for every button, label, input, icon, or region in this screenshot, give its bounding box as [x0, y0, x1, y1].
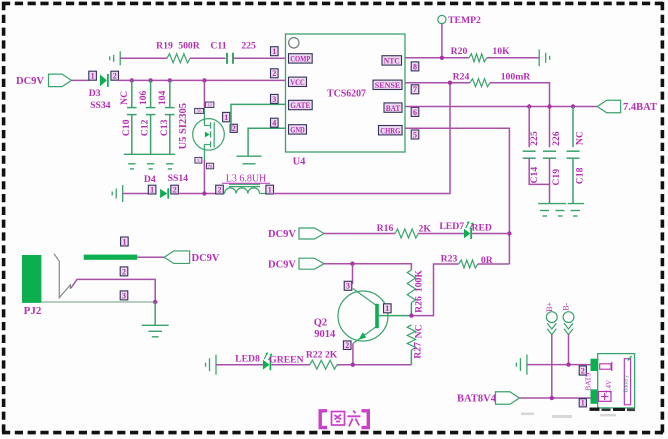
wire BAT8V4 to battery pin1 [519, 397, 590, 399]
pin label box S2 (U5) [195, 108, 204, 113]
transistor Q2 9014 [338, 289, 388, 344]
orientation circle U4 [289, 38, 299, 48]
connector DC9V (Q2) [299, 258, 324, 269]
wire Q2 base to junction [379, 315, 412, 317]
svg-text:VCC: VCC [290, 77, 305, 87]
svg-text:3: 3 [122, 291, 126, 300]
svg-text:R20: R20 [451, 46, 468, 57]
pin 1 of PJ2 [121, 237, 129, 246]
ground (C18) [568, 204, 584, 216]
wire R26 to base junction [410, 303, 412, 316]
wire CHRG down to LED7/R23 [405, 128, 509, 264]
pin 2 of L3 [216, 185, 224, 194]
svg-text:CHRG: CHRG [380, 125, 400, 135]
LED LED8 (green) [263, 359, 271, 370]
svg-text:2: 2 [345, 341, 349, 350]
pin 2 of D3 [111, 71, 119, 80]
svg-text:2K: 2K [419, 223, 432, 234]
junction BAT-C18 [571, 104, 575, 108]
svg-text:NC: NC [119, 91, 130, 105]
resistor R20 [469, 54, 487, 62]
svg-text:R23: R23 [441, 253, 458, 264]
svg-text:1: 1 [385, 304, 389, 313]
connector 7.4BAT [597, 100, 620, 113]
resistor R23 [459, 260, 478, 268]
wire rail to C13 [169, 80, 171, 107]
junction PJ2 pin2-pin3 [153, 300, 157, 304]
capacitor C13 [165, 108, 175, 115]
svg-text:226: 226 [551, 131, 562, 146]
svg-text:225: 225 [241, 41, 256, 52]
resistor R22 [310, 360, 337, 369]
wire R22 to R27 [337, 364, 411, 366]
ground (PJ2) [142, 325, 169, 337]
svg-text:78: 78 [208, 164, 213, 169]
wire B+ down to BAT8V4 net [551, 335, 553, 398]
capacitor C14 [523, 151, 536, 158]
B+ crowfoot [547, 323, 556, 334]
wire ground to battery pin2 [527, 364, 591, 366]
svg-text:B+: B+ [545, 301, 554, 311]
ground (U4 GND pin) [237, 156, 262, 164]
pin 2 of Q2 [343, 341, 351, 350]
capacitor C11 [227, 53, 233, 64]
svg-text:104: 104 [157, 90, 168, 105]
pin 2 of D4 [171, 185, 179, 194]
wire C12 to ground bus [150, 115, 152, 155]
wire B- down to ground net [568, 335, 570, 365]
wire C14 bottom [529, 158, 549, 184]
svg-text:C11: C11 [210, 41, 226, 52]
junction emitter rail [351, 363, 355, 367]
op-amp U4 TCS6207 body [286, 34, 406, 152]
wire BAT to C18 [572, 107, 574, 148]
svg-text:C14: C14 [529, 167, 540, 184]
svg-text:C19: C19 [551, 169, 562, 186]
junction rail-C10 [130, 78, 134, 82]
pin 2 of U5 [230, 124, 237, 133]
pin name COMP [289, 54, 313, 64]
svg-text:R19: R19 [156, 41, 173, 52]
wire LED7 to CHRG net [472, 233, 510, 235]
junction BAT-C14 [527, 104, 531, 108]
svg-text:1: 1 [268, 186, 272, 195]
wire DC9V to R26 [324, 264, 411, 270]
wire R19 to C11 [190, 57, 226, 59]
wire PJ2 pin2 [71, 279, 155, 302]
connector DC9V input [49, 74, 72, 87]
pin label box D (U5) [195, 157, 202, 163]
battery green tick [628, 356, 632, 361]
ground bus under C10 C12 C13 [124, 154, 175, 169]
svg-text:SS34: SS34 [90, 100, 111, 111]
svg-text:TEMP2: TEMP2 [448, 15, 481, 26]
pin 1 of U4 [271, 47, 279, 56]
wire SENSE to R24 [405, 82, 470, 84]
junction CHRG-LED7 [507, 231, 511, 235]
wire rail to U5 source [203, 80, 205, 108]
svg-text:1: 1 [91, 72, 95, 81]
pin 1 of Q2 [384, 304, 392, 313]
svg-text:DC9V: DC9V [268, 259, 296, 270]
svg-text:2: 2 [113, 72, 117, 81]
svg-text:COMP: COMP [290, 54, 310, 64]
capacitor C12 [146, 108, 156, 115]
wire NTC to R20 [405, 57, 469, 59]
pin 1 of U5 [223, 112, 230, 122]
svg-text:2: 2 [173, 186, 177, 195]
svg-text:8: 8 [413, 62, 417, 71]
ground (R20) [539, 49, 550, 66]
pin 1 of L3 [266, 185, 274, 194]
inductor L3 6.8UH [223, 184, 266, 193]
svg-text:56: 56 [197, 109, 202, 114]
wire BAT to C14 [528, 107, 530, 148]
wire R24 to C19 top [490, 83, 550, 148]
svg-text:GND: GND [290, 125, 305, 135]
pin label box S (U5) [205, 102, 214, 108]
svg-text:C18: C18 [575, 167, 586, 184]
wire C11 to U4 pin1 COMP [234, 57, 286, 59]
svg-text:10K: 10K [492, 46, 510, 57]
svg-text:R24: R24 [453, 72, 470, 83]
ground (battery minus) [516, 355, 527, 375]
connector DC9V (PJ2) [164, 251, 189, 264]
svg-text:C13: C13 [159, 119, 170, 136]
pin 1 of BAT9 [579, 399, 586, 408]
svg-text:U5 SI2305: U5 SI2305 [178, 103, 189, 149]
pin 5 of U4 [411, 130, 419, 139]
wire R20 to ground [487, 57, 539, 59]
resistor R27 NC [407, 325, 415, 350]
watermark smudge under battery [590, 408, 636, 412]
pin 6 of U4 [411, 107, 419, 116]
svg-text:DC9V: DC9V [268, 229, 296, 240]
wire L3 to R24/SENSE [273, 83, 450, 194]
junction rail-U5 source [202, 78, 206, 82]
junction SENSE-L3 [448, 81, 452, 85]
pin name GATE [289, 100, 313, 110]
wire Q2 emitter down [352, 344, 354, 365]
wire DC9V to R16 [324, 233, 395, 235]
svg-text:1: 1 [224, 113, 228, 122]
B- crowfoot [564, 323, 573, 334]
svg-text:100K: 100K [414, 270, 425, 293]
wire R23 right leg [478, 263, 510, 265]
svg-text:LED7: LED7 [439, 221, 464, 232]
battery fuse symbol [600, 362, 612, 371]
svg-text:D4: D4 [144, 174, 156, 185]
capacitor C10 [127, 108, 137, 115]
battery pin 2 pad [591, 359, 598, 371]
svg-text:100mR: 100mR [501, 72, 532, 83]
svg-text:2: 2 [218, 186, 222, 195]
pin 3 of PJ2 [120, 291, 128, 300]
svg-text:R27: R27 [413, 342, 424, 359]
ground (D4 anode) [112, 185, 123, 202]
LED8 emission arrows [264, 353, 272, 361]
pin name BAT [384, 103, 402, 113]
svg-text:R26: R26 [414, 296, 425, 313]
pin 2 of BAT9 [579, 366, 586, 376]
svg-text:PJ2: PJ2 [24, 305, 42, 317]
svg-text:3: 3 [346, 282, 350, 291]
resistor R24 [470, 79, 490, 87]
capacitor C18 [567, 151, 580, 158]
ground (C14 C19) [538, 204, 566, 216]
junction rail-C12 [148, 78, 152, 82]
svg-text:SENSE: SENSE [375, 80, 401, 90]
wire down to Q2 collector [352, 264, 354, 284]
wire C19 to ground [549, 158, 551, 203]
PJ2 sleeve line (pin 3) [41, 301, 155, 303]
wire ground to R19 [120, 57, 167, 59]
svg-text:2: 2 [122, 267, 126, 276]
wire D4 to L3 [178, 193, 216, 195]
pin 8 of U4 [411, 62, 419, 71]
svg-text:Battery: Battery [624, 375, 630, 393]
pin 3 of U4 [271, 94, 279, 103]
svg-text:SS14: SS14 [168, 173, 189, 184]
wire PJ2 to ground [154, 302, 156, 325]
wire R16 to LED7 [418, 233, 464, 235]
connector DC9V (LED7) [299, 228, 324, 239]
svg-text:5: 5 [413, 130, 417, 139]
svg-text:TCS6207: TCS6207 [327, 89, 366, 100]
wire rail to C12 [150, 80, 152, 107]
node B- [563, 312, 574, 323]
node TEMP2 [438, 15, 446, 23]
caption 【图六】 [320, 411, 368, 428]
svg-text:D3: D3 [89, 88, 101, 99]
wire TEMP2 stem [441, 24, 443, 58]
resistor R19 [167, 54, 190, 63]
pin name NTC [382, 56, 402, 66]
wire C13 to ground bus [169, 115, 171, 155]
svg-text:12: 12 [207, 103, 212, 108]
battery label box [624, 359, 630, 405]
junction D4-L3-U5 drain [202, 191, 206, 195]
transistor U5 SI2305 (P-MOSFET) [193, 108, 225, 160]
pin 7 of U4 [411, 85, 419, 94]
LED LED7 (red) [464, 228, 471, 239]
pin 1 of D3 [89, 71, 97, 80]
capacitor C19 [543, 151, 556, 158]
svg-text:500R: 500R [178, 41, 201, 52]
svg-text:BAT: BAT [386, 103, 401, 113]
wire LED8 to R22 [272, 364, 310, 366]
connector PJ2 body [22, 255, 41, 303]
wire U5 gate to U4 GATE [231, 104, 286, 131]
svg-text:7.4BAT: 7.4BAT [623, 102, 657, 113]
watermark faint specks [521, 413, 616, 419]
junction B- on ground wire [566, 362, 570, 366]
pin name GND [289, 125, 307, 135]
resistor R16 [395, 229, 418, 238]
connector BAT8V4 [496, 392, 520, 405]
svg-text:LED8: LED8 [235, 354, 260, 365]
svg-text:C10: C10 [121, 119, 132, 136]
svg-text:Q2: Q2 [314, 317, 327, 328]
ground (COMP RC branch) [110, 51, 121, 65]
PJ2 switch contact [54, 254, 70, 298]
svg-text:U4: U4 [293, 157, 307, 168]
diode D3 SS34 [100, 74, 108, 87]
LED7 emission arrows [466, 222, 474, 230]
pin name VCC [289, 77, 307, 87]
svg-text:DC9V: DC9V [16, 76, 44, 87]
ground (LED8) [206, 355, 217, 375]
svg-text:NC: NC [414, 324, 425, 338]
svg-text:DC9V: DC9V [192, 253, 220, 264]
wire BAT to 7.4BAT [405, 106, 597, 108]
svg-text:GREEN: GREEN [269, 355, 303, 366]
battery plus symbol [599, 392, 612, 402]
pin label box D2 (U5) [207, 163, 214, 169]
junction B+ on BAT8V4 wire [550, 396, 554, 400]
wire R27 to emitter rail [410, 350, 412, 365]
wire ground to D4 [123, 193, 149, 195]
wire C10 to ground bus [131, 115, 133, 155]
pin 4 of U4 [271, 118, 279, 127]
svg-text:GATE: GATE [290, 100, 310, 110]
battery BAT9 body [598, 354, 635, 408]
pin 3 of Q2 [344, 281, 352, 290]
svg-text:BAT9: BAT9 [584, 373, 593, 391]
svg-text:C12: C12 [140, 119, 151, 136]
svg-text:106: 106 [138, 90, 149, 105]
diode D4 SS14 [160, 188, 168, 198]
wire C18 to ground [572, 158, 574, 203]
pin 2 of PJ2 [120, 267, 128, 276]
wire PJ2 pin1 to DC9V [137, 256, 164, 258]
svg-text:225: 225 [529, 131, 540, 146]
svg-text:RED: RED [471, 222, 491, 233]
svg-text:9014: 9014 [314, 329, 336, 340]
wire rail to C10 [131, 80, 133, 107]
svg-text:1: 1 [150, 186, 154, 195]
svg-text:1: 1 [272, 47, 276, 56]
svg-text:4: 4 [272, 119, 276, 128]
wire VCC rail [118, 79, 286, 81]
junction rail-C13 [168, 78, 172, 82]
wire U5 drain down [203, 160, 205, 194]
svg-text:3: 3 [272, 95, 276, 104]
wire ground to LED8 [216, 364, 263, 366]
svg-text:B-: B- [562, 302, 571, 310]
pin 2 of U4 [271, 69, 279, 78]
svg-text:BAT8V4: BAT8V4 [457, 394, 497, 405]
svg-text:NC: NC [575, 131, 586, 145]
pin 1 of D4 [148, 185, 156, 194]
junction DC9V-Q2 collector [350, 262, 354, 266]
svg-text:6: 6 [413, 108, 417, 117]
PJ2 tip contact (pin 1) [84, 255, 138, 260]
svg-text:7: 7 [413, 85, 417, 94]
svg-text:1: 1 [581, 399, 585, 408]
wire R23 left leg [411, 264, 458, 316]
svg-text:2: 2 [232, 124, 236, 133]
wire U4 GND pin [248, 128, 285, 156]
pin name CHRG [379, 125, 403, 135]
svg-text:1: 1 [122, 237, 126, 246]
junction BAT-R24/C19 [547, 104, 551, 108]
pin name SENSE [373, 80, 402, 90]
junction NTC-TEMP2 [440, 56, 444, 60]
svg-text:2: 2 [272, 69, 276, 78]
svg-text:R16: R16 [377, 223, 394, 234]
svg-text:NTC: NTC [384, 56, 400, 66]
battery pin 1 pad [591, 389, 598, 403]
resistor R26 100K [407, 270, 415, 303]
node B+ [546, 312, 557, 323]
svg-text:R22 2K: R22 2K [306, 350, 338, 361]
wire DC9V to D3 [72, 79, 89, 81]
junction base-R26-R27-R23 [409, 313, 413, 317]
